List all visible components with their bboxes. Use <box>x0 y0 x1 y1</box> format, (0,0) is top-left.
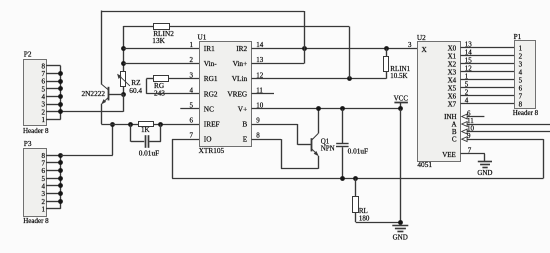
wire RLIN2 row <box>123 26 349 28</box>
wire U1 pin9 B to Q1 base <box>252 124 311 145</box>
wire U1 pin12 VLin <box>252 78 387 80</box>
svg-text:X3: X3 <box>448 69 457 77</box>
wire P2 pin2 long horizontal <box>61 111 124 113</box>
wire U1 pin2 Vin- <box>123 63 199 65</box>
svg-text:U1: U1 <box>198 33 207 42</box>
wire U1 pin10 V+ <box>252 108 401 110</box>
svg-text:9: 9 <box>256 117 260 125</box>
resistor R 1K <box>139 122 154 135</box>
U1 left pin numbers <box>190 41 194 140</box>
svg-text:VREG: VREG <box>227 89 248 98</box>
wire U1 pin13 Vin+ <box>252 63 305 65</box>
connector P2 <box>23 50 49 135</box>
junction cap2 bottom on rail <box>340 176 345 181</box>
junction base node <box>121 92 126 97</box>
svg-text:Header 8: Header 8 <box>23 217 49 225</box>
junction VLin/RLIN2 vertical <box>347 76 352 81</box>
U2 right pin numbers <box>465 41 475 155</box>
svg-text:4051: 4051 <box>417 160 432 169</box>
wire VCC vertical down <box>400 109 402 222</box>
junction VCC on V+ wire <box>398 106 403 111</box>
svg-text:2: 2 <box>519 53 523 61</box>
svg-text:IREF: IREF <box>204 120 220 129</box>
wire U2 C with input arrow <box>462 137 544 142</box>
wire U1 pin1 IR1 <box>123 48 199 50</box>
wire P2 bus vertical <box>60 66 62 120</box>
svg-text:X7: X7 <box>448 101 457 109</box>
svg-text:GND: GND <box>477 169 492 177</box>
svg-text:P1: P1 <box>514 32 522 41</box>
wire RG loop to pin4 RG2 <box>146 79 199 94</box>
wire IREF net to P3 pin8 <box>61 124 113 156</box>
wire U1 pin6 IREF <box>101 124 199 126</box>
wire U1 pin14 IR2 to U2 X <box>252 48 418 50</box>
svg-text:X4: X4 <box>448 77 457 85</box>
svg-text:B: B <box>242 120 247 129</box>
svg-text:X0: X0 <box>448 45 457 53</box>
connector P1 <box>513 32 539 117</box>
svg-text:IO: IO <box>204 135 212 144</box>
svg-text:X: X <box>422 45 428 54</box>
svg-text:4: 4 <box>519 68 523 76</box>
junction Q1 collector on V+ wire <box>316 106 321 111</box>
wire U1 pin11 VREG stub <box>252 93 275 95</box>
resistor RL <box>353 178 401 222</box>
resistor RLIN2 <box>152 24 174 45</box>
svg-text:C: C <box>452 136 457 144</box>
wire vertical RLIN2 row to VLin <box>349 27 351 79</box>
connector P3 <box>23 139 49 225</box>
svg-text:5: 5 <box>519 76 523 84</box>
wire RZ bottom to base node <box>123 86 125 94</box>
svg-text:RG2: RG2 <box>204 89 218 98</box>
wire U2 B with input arrow <box>462 129 550 134</box>
wire U2 A with input arrow <box>462 122 550 127</box>
junction on Vin- wire <box>121 61 126 66</box>
wire vertical RLIN2 to RZ chain <box>123 26 125 71</box>
wires U2 X0-X7 to P1 <box>461 48 515 104</box>
svg-text:0.01uF: 0.01uF <box>348 146 368 155</box>
svg-text:3: 3 <box>408 41 412 49</box>
wire U2 VEE pin <box>461 154 485 162</box>
wire P3 pin stubs <box>46 156 61 209</box>
wire U1 pin7 IO down <box>172 139 199 178</box>
svg-text:NPN: NPN <box>321 144 335 152</box>
svg-text:9: 9 <box>467 132 471 140</box>
svg-text:Vin+: Vin+ <box>233 59 248 68</box>
wire left vertical to 2N2222 collector <box>101 11 103 85</box>
wire top rail <box>101 11 304 13</box>
junction RLIN1 top <box>384 46 389 51</box>
svg-text:6: 6 <box>519 84 523 92</box>
svg-text:E: E <box>243 135 248 144</box>
junction IR2/top vertical <box>302 46 307 51</box>
svg-text:X2: X2 <box>448 61 457 69</box>
resistor RG <box>154 76 169 98</box>
wire P3 bus vertical <box>60 155 62 209</box>
junction cap branch right <box>158 122 163 127</box>
svg-text:X5: X5 <box>448 85 457 93</box>
wire vertical pin13 to top <box>304 11 306 64</box>
svg-text:8: 8 <box>519 100 523 108</box>
junction GND node <box>398 220 403 225</box>
svg-text:VLin: VLin <box>232 74 248 83</box>
capacitor C1 0.01uF <box>131 124 161 157</box>
svg-text:VCC: VCC <box>394 95 409 103</box>
svg-text:8: 8 <box>256 132 260 140</box>
wire base node down to P2 wire <box>123 94 125 112</box>
svg-text:NC: NC <box>204 104 214 113</box>
wire P2 pin stubs <box>46 66 61 120</box>
svg-text:P3: P3 <box>24 139 32 148</box>
op-amp U1 XTR105 body <box>198 33 252 156</box>
junction cap branch left <box>128 122 133 127</box>
svg-text:3: 3 <box>519 61 523 69</box>
svg-text:VEE: VEE <box>442 151 456 159</box>
transistor Q1 NPN <box>311 133 334 156</box>
svg-text:Header 8: Header 8 <box>23 127 49 135</box>
wire Q1 collector up <box>318 109 320 133</box>
svg-text:2N2222: 2N2222 <box>82 89 106 98</box>
svg-text:GND: GND <box>393 234 408 242</box>
svg-text:1: 1 <box>42 116 46 124</box>
svg-text:IR2: IR2 <box>236 44 247 53</box>
junction cap2 top <box>340 106 345 111</box>
svg-text:P2: P2 <box>24 50 32 59</box>
svg-text:V+: V+ <box>238 104 247 113</box>
wire U1 pin3 RG1 <box>146 78 199 80</box>
svg-text:X6: X6 <box>448 93 457 101</box>
resistor RLIN1 <box>384 49 411 81</box>
junction IREF to P3 branch <box>110 122 115 127</box>
wire U1 pin8 E to Q1 emitter <box>252 139 319 169</box>
wire bottom rail <box>172 178 543 180</box>
svg-text:6: 6 <box>190 117 194 125</box>
svg-text:13K: 13K <box>152 36 165 45</box>
mux U2 4051 body <box>417 33 461 169</box>
svg-text:XTR105: XTR105 <box>199 146 225 155</box>
svg-text:180: 180 <box>359 215 370 223</box>
capacitor C2 0.01uF <box>336 109 368 178</box>
svg-text:Header 8: Header 8 <box>513 109 539 117</box>
svg-text:7: 7 <box>519 92 523 100</box>
svg-text:RG1: RG1 <box>204 74 218 83</box>
wire U1 pin5 NC stub <box>180 108 199 110</box>
transistor 2N2222 <box>82 84 124 104</box>
wire U2 INH stub with input arrow <box>462 114 485 119</box>
junction on IR1 wire <box>121 46 126 51</box>
U1 right pin numbers <box>256 41 264 140</box>
svg-text:X1: X1 <box>448 53 457 61</box>
svg-text:10.5K: 10.5K <box>390 72 407 80</box>
resistor RZ <box>117 72 142 96</box>
svg-text:IR1: IR1 <box>204 44 215 53</box>
svg-text:1K: 1K <box>141 126 150 134</box>
svg-text:U2: U2 <box>417 33 426 42</box>
ground GND bottom <box>392 226 408 242</box>
svg-text:60.4: 60.4 <box>129 86 142 95</box>
ground GND at VEE <box>477 162 492 178</box>
junctions P2 bus <box>58 71 63 114</box>
svg-text:0.01uF: 0.01uF <box>139 148 159 157</box>
U2 pin3 number <box>408 41 412 49</box>
junction RL top on rail <box>353 176 358 181</box>
power VCC <box>394 95 409 109</box>
svg-text:1: 1 <box>519 45 523 53</box>
svg-text:7: 7 <box>190 132 194 140</box>
svg-text:Vin-: Vin- <box>204 59 218 68</box>
wire 2N2222 emitter down <box>101 104 103 124</box>
wire C down to bottom rail <box>543 139 545 178</box>
svg-text:1: 1 <box>42 205 46 213</box>
junctions P3 bus <box>58 153 63 204</box>
